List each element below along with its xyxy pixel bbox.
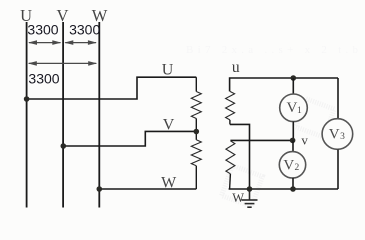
stub V1 to v node	[292, 122, 294, 141]
node dot V on chain	[194, 129, 200, 135]
svg-text:V: V	[286, 100, 297, 116]
primary chain bottom lead	[195, 166, 197, 189]
wire R2a bottom to drop	[230, 124, 250, 189]
lead from R2a to takeoff	[229, 120, 231, 125]
svg-text:3300: 3300	[27, 21, 58, 37]
node dot U tap	[24, 96, 30, 102]
dimension arrow U-W (long)	[28, 61, 97, 66]
ground	[242, 189, 258, 207]
resistor R1b (V-W winding)	[191, 140, 201, 166]
lead R2b bottom	[229, 174, 232, 189]
dimension arrow U-V	[28, 40, 61, 45]
svg-text:v: v	[301, 133, 308, 148]
svg-text:V: V	[283, 157, 294, 173]
svg-text:U: U	[162, 62, 174, 79]
svg-text:V: V	[163, 116, 175, 133]
node dot V tap	[61, 143, 67, 149]
svg-text:3300: 3300	[28, 71, 59, 87]
bus line U	[26, 22, 28, 208]
svg-text:2: 2	[295, 163, 300, 173]
svg-text:W: W	[232, 191, 244, 205]
wire V phase tap	[63, 131, 196, 146]
node dot bottom / V2	[290, 186, 296, 192]
bus line V	[62, 22, 64, 208]
svg-text:3300: 3300	[69, 21, 100, 37]
right branch upper lead	[337, 78, 339, 118]
primary chain middle lead	[195, 119, 197, 140]
svg-text:V: V	[329, 127, 340, 143]
node dot top wire / V1	[291, 75, 297, 81]
voltmeter V2	[279, 152, 305, 178]
svg-text:3: 3	[340, 132, 345, 142]
svg-text:W: W	[161, 174, 177, 191]
voltmeter V3	[322, 119, 353, 150]
resistor R1a (U-V winding)	[191, 92, 201, 119]
secondary top corner lead	[230, 78, 338, 91]
primary chain top lead	[195, 77, 197, 91]
wire W phase tap	[99, 188, 196, 190]
bus line W	[98, 22, 100, 208]
svg-text:u: u	[232, 59, 240, 76]
resistor R2a (secondary u winding)	[226, 91, 235, 120]
dimension arrow V-W	[64, 40, 97, 45]
svg-text:1: 1	[297, 106, 302, 116]
right branch lower lead	[337, 150, 339, 189]
bottom wire w	[229, 188, 338, 190]
stub v to V2	[292, 140, 294, 151]
wire U phase tap	[27, 77, 197, 99]
stub top to V1	[292, 78, 294, 94]
resistor R2b (secondary v winding)	[226, 141, 235, 174]
watermark behind ground area	[221, 165, 262, 206]
watermark behind V1/v area	[296, 99, 334, 137]
node dot v	[290, 138, 296, 144]
wire v node	[230, 139, 293, 141]
node dot drop-bottom	[247, 186, 253, 192]
node dot W tap	[97, 186, 103, 192]
stub V2 to bottom	[292, 178, 294, 189]
voltmeter V1	[280, 94, 308, 122]
